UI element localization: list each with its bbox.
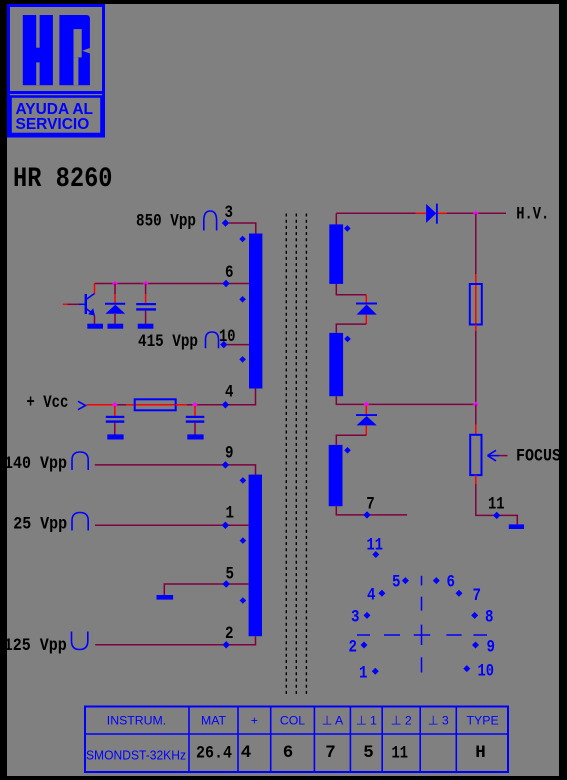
wire pin2 to winding bottom — [95, 636, 255, 645]
wire T2 bottom rail — [336, 396, 476, 404]
svg-text:140 Vpp: 140 Vpp — [4, 454, 67, 474]
capacitor C1 — [136, 303, 156, 311]
pin diagram node 7 — [456, 590, 463, 597]
winding dot — [239, 296, 246, 303]
transformer core dashed line 3 — [305, 214, 307, 696]
wire R3 to n4 — [176, 404, 193, 406]
node junction n5 — [473, 211, 479, 217]
transistor base wire — [63, 303, 85, 305]
resistor R2 — [470, 284, 482, 325]
pin 2 node — [223, 641, 230, 648]
pin 5 node — [223, 580, 230, 587]
wire C1 to ground — [145, 311, 147, 324]
ground C1 — [138, 324, 154, 329]
wire pin10 to winding — [227, 344, 249, 346]
svg-text:SMONDST-32KHz: SMONDST-32KHz — [86, 748, 186, 763]
wire R2 to n7 — [475, 325, 477, 405]
pin diagram node 11 — [372, 551, 379, 558]
primary winding P1 — [249, 234, 262, 389]
svg-text:7: 7 — [473, 586, 482, 606]
svg-text:1: 1 — [226, 504, 235, 524]
pin 4 node — [222, 401, 229, 408]
svg-text:TYPE: TYPE — [467, 714, 499, 728]
svg-text:H.V.: H.V. — [516, 205, 549, 225]
secondary winding S1 — [249, 475, 262, 637]
wire n5 to R2 — [475, 213, 477, 284]
focus arrow — [488, 450, 508, 461]
pin diagram node 5 — [402, 577, 409, 584]
pin 10 node — [220, 341, 227, 348]
wire n4 to C3 — [194, 406, 196, 416]
svg-text:11: 11 — [488, 494, 505, 514]
node junction n1 — [112, 281, 118, 287]
pulse symbol 140 — [72, 452, 88, 470]
secondary winding T1 — [329, 224, 343, 284]
wire pin6 horizontal — [95, 283, 250, 285]
pulse symbol 25 — [72, 513, 88, 531]
wire top HV rail — [336, 213, 506, 224]
diode D5 — [356, 304, 377, 315]
svg-text:6: 6 — [447, 573, 456, 593]
wire pin9 to winding top — [95, 465, 256, 475]
svg-text:⊥ 3: ⊥ 3 — [428, 714, 449, 728]
winding dot — [240, 537, 247, 544]
wire n3 to C2 — [114, 406, 116, 416]
pulse symbol 850 — [204, 211, 217, 231]
pin diagram node 1 — [372, 668, 379, 675]
pin 6 node — [222, 280, 229, 287]
node junction n2 — [143, 281, 149, 287]
svg-text:850 Vpp: 850 Vpp — [136, 212, 196, 232]
HR logo letter H — [23, 15, 53, 85]
transistor Q1 collector wire — [94, 284, 96, 294]
HV diode D4 — [426, 204, 437, 224]
pin diagram node 4 — [378, 590, 385, 597]
HR logo letter R — [59, 15, 90, 85]
wire D5 to T2 — [336, 315, 366, 333]
svg-text:3: 3 — [351, 608, 360, 628]
svg-text:COL: COL — [280, 714, 305, 728]
svg-text:7: 7 — [366, 495, 375, 515]
pin 7 node — [363, 511, 370, 518]
svg-text:+: + — [251, 714, 258, 728]
node junction n6 — [364, 402, 370, 408]
pin diagram node 8 — [471, 612, 478, 619]
HR logo divider line — [7, 91, 105, 94]
wire n7 to RV1 — [475, 404, 477, 434]
transformer core dashed line 1 — [285, 214, 287, 696]
svg-text:1: 1 — [359, 664, 368, 684]
svg-text:5: 5 — [363, 743, 374, 763]
svg-text:SERVICIO: SERVICIO — [16, 116, 90, 133]
pin diagram dashed cross — [357, 576, 487, 673]
transistor emitter wire — [94, 316, 96, 325]
svg-text:26.4: 26.4 — [196, 744, 232, 764]
pulse symbol 125 (negative) — [72, 632, 88, 650]
svg-text:8: 8 — [485, 608, 494, 628]
secondary winding T3 — [329, 445, 343, 506]
svg-text:4: 4 — [367, 586, 376, 606]
svg-text:9: 9 — [225, 444, 234, 464]
node junction n4 — [192, 402, 198, 408]
winding dot T1 — [344, 225, 351, 232]
ground pin5 — [157, 595, 174, 600]
pin 3 node — [222, 219, 229, 226]
pin diagram node 10 — [463, 665, 470, 672]
svg-text:INSTRUM.: INSTRUM. — [107, 714, 166, 728]
svg-text:⊥ 1: ⊥ 1 — [356, 714, 377, 728]
ground Q1 emitter — [87, 324, 103, 329]
pin diagram node 3 — [364, 612, 371, 619]
pin diagram node 6 — [433, 577, 440, 584]
svg-text:MAT: MAT — [201, 714, 227, 728]
pin diagram node 9 — [472, 642, 479, 649]
winding dot T2 — [344, 336, 351, 343]
pin diagram node 2 — [361, 642, 368, 649]
ground pin11 — [509, 524, 524, 529]
diode D6 — [356, 415, 377, 425]
ground C3 — [187, 434, 203, 439]
svg-text:9: 9 — [487, 638, 496, 658]
wire n2 to C1 — [145, 284, 147, 304]
winding dot — [240, 597, 247, 604]
wire D1 to ground — [114, 314, 116, 324]
wire pin5 — [164, 584, 248, 595]
wire n1 to D1 — [114, 284, 116, 304]
svg-text:⊥ 2: ⊥ 2 — [391, 714, 412, 728]
svg-text:25 Vpp: 25 Vpp — [13, 515, 67, 535]
svg-text:6: 6 — [283, 743, 294, 763]
wire C2 to ground — [114, 423, 116, 435]
wire n4 to winding bottom — [197, 389, 256, 405]
svg-text:4: 4 — [241, 743, 252, 763]
winding dot — [240, 477, 247, 484]
potentiometer RV1 focus — [470, 435, 481, 475]
capacitor C2 — [106, 416, 125, 423]
svg-text:+ Vcc: + Vcc — [26, 393, 68, 413]
pin 9 node — [222, 461, 229, 468]
pin 11 node — [493, 512, 500, 519]
wire RV1 to pin11 and ground — [476, 475, 518, 524]
wire T3 to pin7 — [336, 506, 407, 515]
svg-text:11: 11 — [392, 744, 409, 764]
transformer core dashed line 2 — [295, 214, 297, 696]
winding dot T3 — [344, 447, 351, 454]
diode D1 — [105, 304, 125, 314]
wire pin1 — [95, 524, 249, 526]
svg-text:⊥ A: ⊥ A — [322, 714, 344, 728]
svg-text:4: 4 — [225, 383, 234, 403]
ground C2 — [107, 434, 123, 439]
data table frame — [84, 706, 509, 774]
svg-text:7: 7 — [325, 743, 336, 763]
wire n6 to D6 — [365, 406, 367, 415]
svg-text:HR 8260: HR 8260 — [13, 164, 113, 195]
pulse symbol 415 — [206, 332, 219, 348]
transistor Q1 — [85, 294, 95, 316]
svg-text:2: 2 — [349, 638, 358, 658]
pin 1 node — [222, 522, 229, 529]
svg-text:415 Vpp: 415 Vpp — [138, 332, 198, 352]
node junction n7 — [473, 402, 479, 408]
svg-text:5: 5 — [392, 573, 401, 593]
capacitor C3 — [186, 416, 205, 423]
wire Vcc to n3 — [87, 404, 113, 406]
winding dot — [239, 236, 246, 243]
Vcc input arrow — [78, 401, 86, 409]
HR logo outer box — [9, 6, 104, 137]
wire D6 to T3 — [336, 425, 366, 445]
secondary winding T2 — [329, 333, 343, 396]
svg-text:125 Vpp: 125 Vpp — [4, 636, 67, 656]
resistor R3 — [135, 399, 176, 410]
wire C3 to ground — [194, 423, 196, 435]
svg-text:H: H — [475, 743, 486, 763]
wire n3 to R3 — [117, 404, 135, 406]
wire T1 to D5 — [336, 284, 366, 303]
svg-text:10: 10 — [478, 662, 495, 682]
node junction n3 — [112, 402, 118, 408]
winding dot — [239, 356, 246, 363]
AYUDA AL SERVICIO inner box — [11, 97, 102, 135]
wire pin3 to winding top — [229, 223, 256, 234]
svg-text:FOCUS: FOCUS — [516, 446, 561, 466]
ground D1 — [108, 324, 124, 329]
